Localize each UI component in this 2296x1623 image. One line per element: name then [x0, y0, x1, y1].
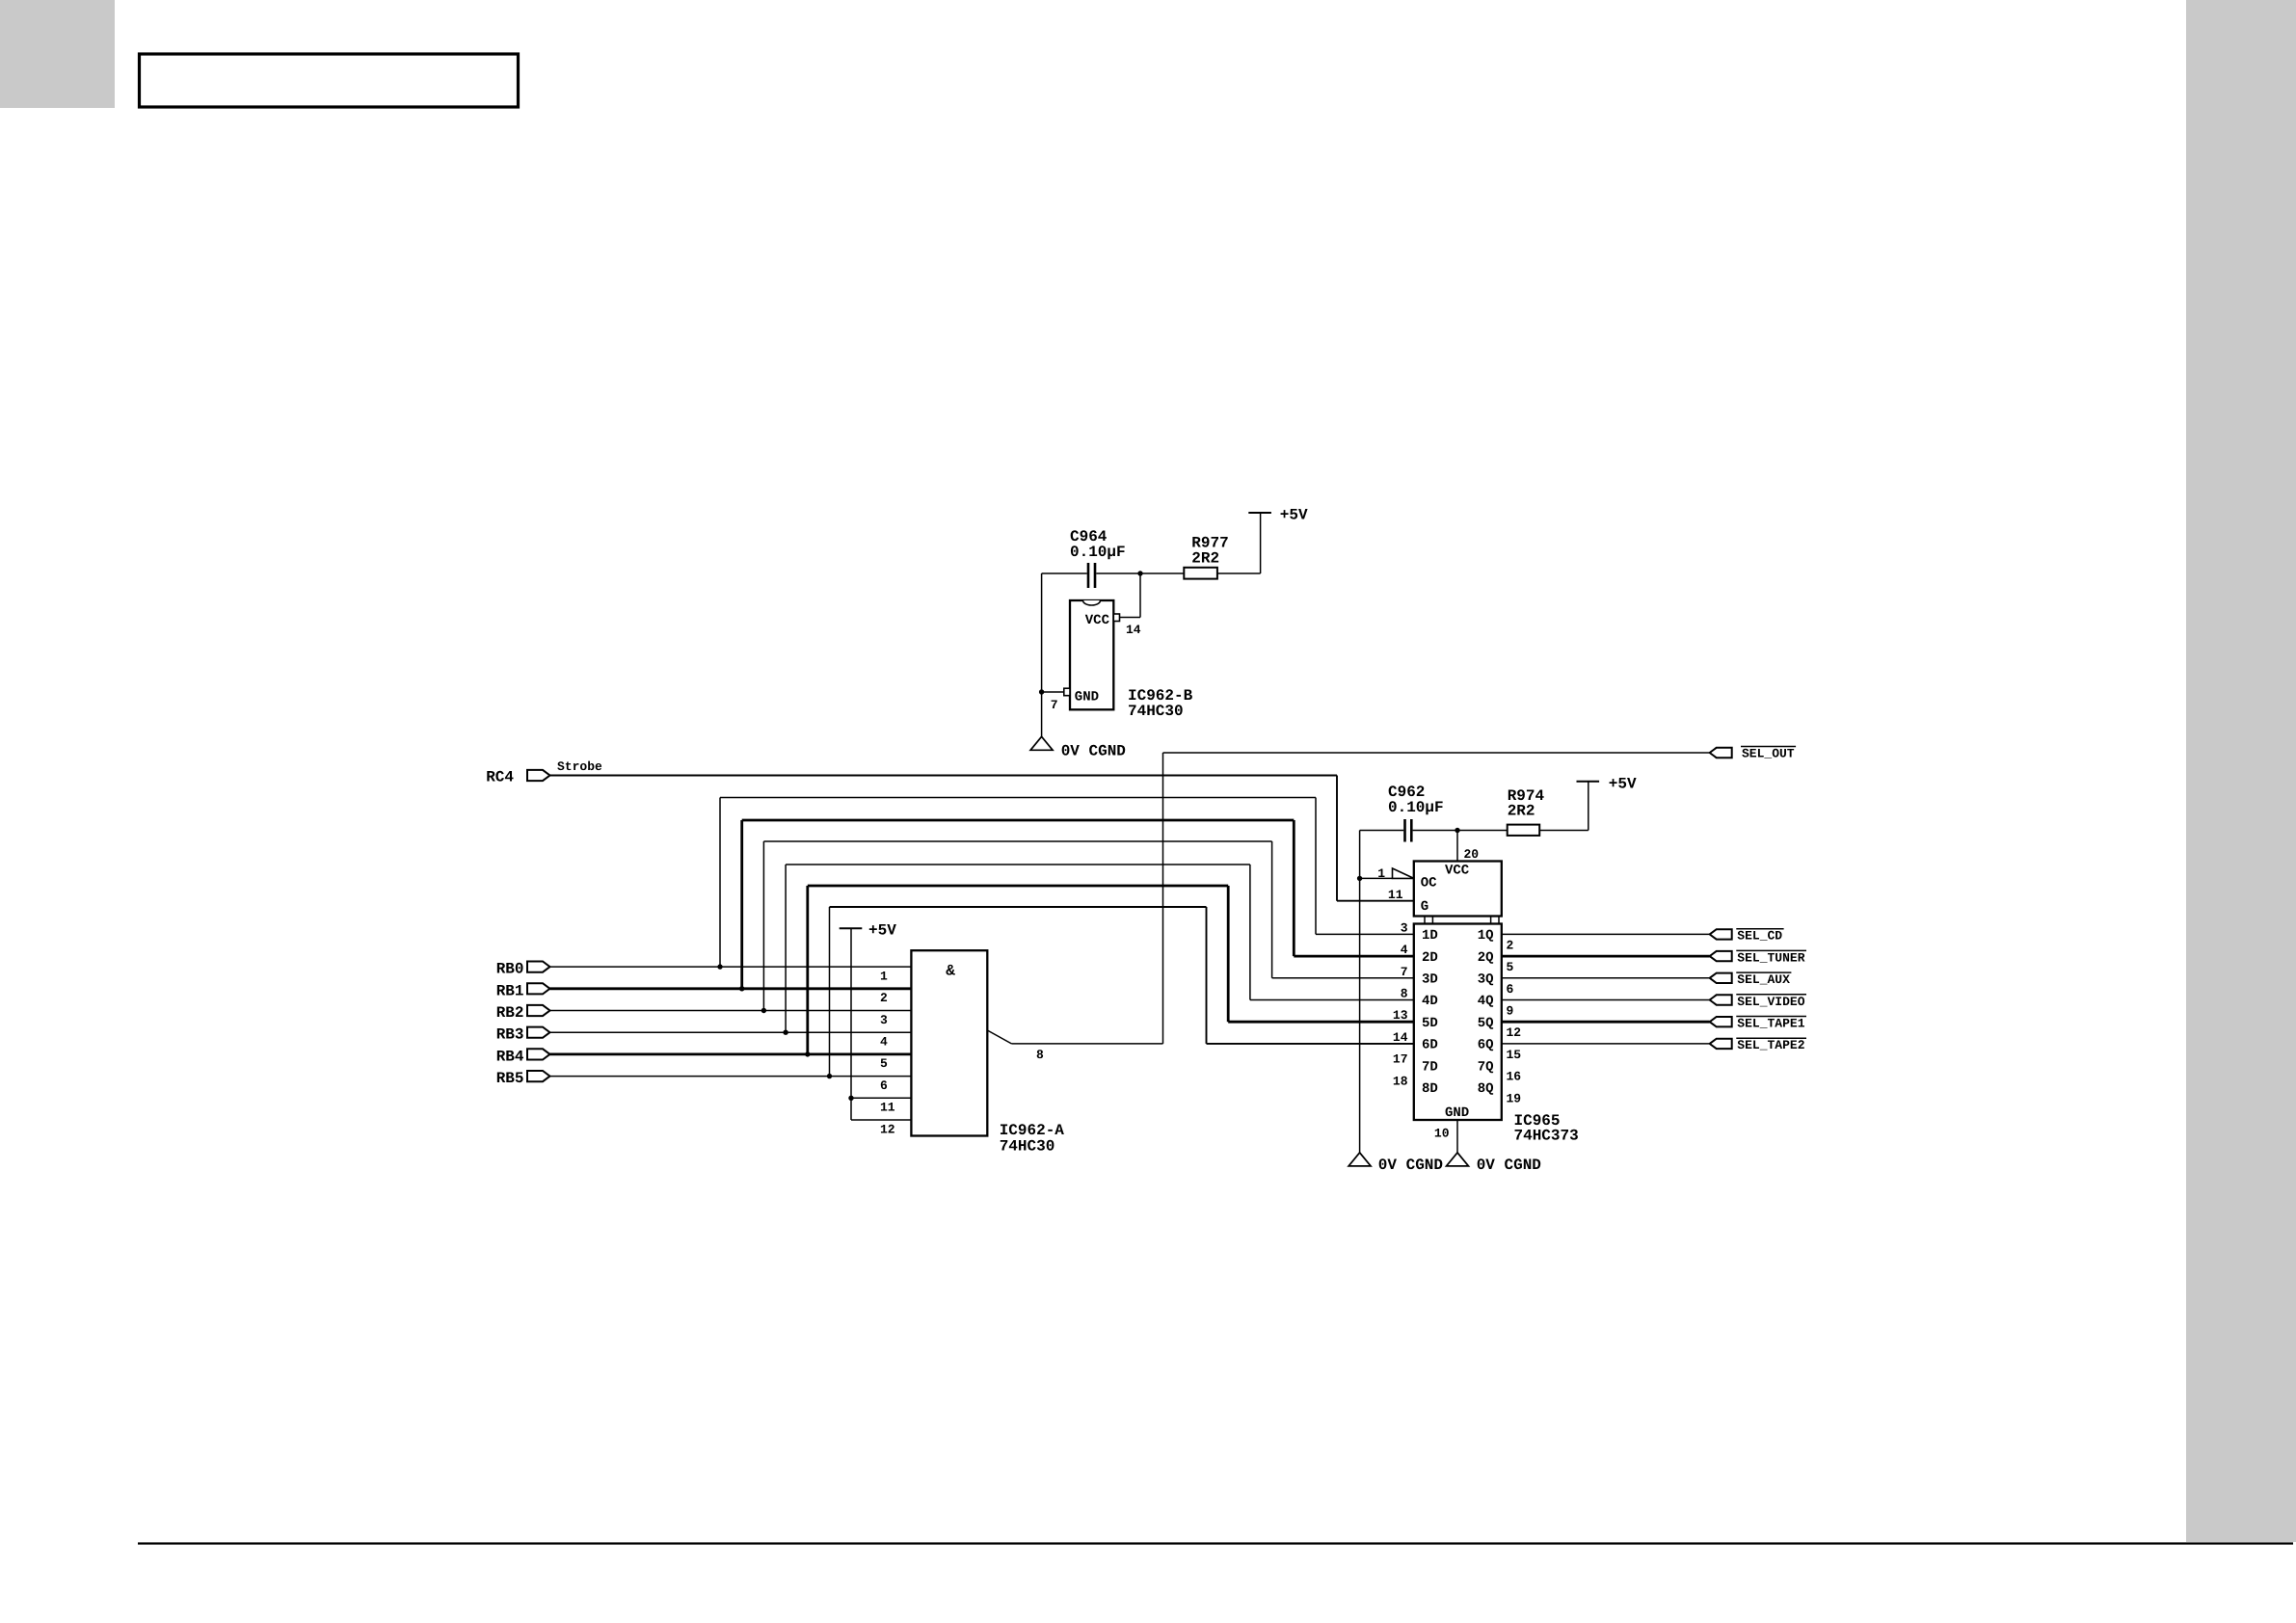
- svg-text:6: 6: [1507, 982, 1514, 997]
- svg-text:0V CGND: 0V CGND: [1061, 743, 1126, 760]
- port SEL_VIDEO: [1710, 995, 1806, 1009]
- power +5V (gate): [840, 922, 897, 940]
- port SEL_AUX: [1710, 972, 1792, 987]
- wire RB2 bus to latch 3D: [763, 841, 1413, 1011]
- svg-text:4D: 4D: [1422, 994, 1438, 1009]
- junction RB3: [783, 1030, 788, 1035]
- svg-text:17: 17: [1393, 1052, 1408, 1067]
- svg-text:12: 12: [1507, 1025, 1522, 1040]
- svg-text:18: 18: [1393, 1074, 1408, 1088]
- wire +5V to gate pins 11/12: [851, 928, 911, 1120]
- svg-text:7: 7: [1051, 698, 1058, 712]
- wire SEL_OUT riser from gate output: [1162, 753, 1164, 1044]
- svg-text:SEL_TAPE2: SEL_TAPE2: [1737, 1038, 1804, 1052]
- wire gate output: [1011, 1043, 1162, 1045]
- wire C964 left to ground leg: [1042, 572, 1087, 574]
- latch pin 18 (8D) label: [1393, 1074, 1438, 1097]
- latch pin 14 (6D) label: [1393, 1030, 1438, 1053]
- svg-text:14: 14: [1393, 1030, 1408, 1045]
- gate pin 4 label: [880, 1035, 888, 1050]
- port RB1: [496, 982, 550, 999]
- svg-text:6D: 6D: [1422, 1038, 1438, 1053]
- svg-text:RB2: RB2: [496, 1004, 524, 1022]
- wire RB5 bus to latch 6D: [830, 907, 1414, 1077]
- wire C962 right to R974: [1413, 830, 1508, 832]
- wire R977 to +5V: [1217, 513, 1261, 573]
- svg-text:7D: 7D: [1422, 1059, 1438, 1075]
- ground 0V CGND (IC965): [1447, 1153, 1541, 1174]
- pin 14 label: [1126, 623, 1141, 637]
- pin 7 label: [1051, 698, 1058, 712]
- wire R974 to +5V: [1539, 782, 1589, 831]
- title box (empty): [140, 54, 519, 107]
- port SEL_OUT: [1710, 747, 1796, 761]
- resistor R974: [1508, 787, 1545, 836]
- svg-text:1: 1: [880, 969, 888, 983]
- svg-text:G: G: [1421, 899, 1428, 915]
- wire GND pin 7 to ground leg: [1042, 691, 1064, 693]
- latch pin 9 (4Q) label: [1478, 994, 1514, 1018]
- latch pin 8 (4D) label: [1401, 987, 1438, 1010]
- svg-text:6: 6: [880, 1078, 888, 1093]
- port RB4: [496, 1048, 550, 1065]
- svg-text:0V CGND: 0V CGND: [1477, 1157, 1541, 1174]
- pin 11 label (G): [1388, 888, 1403, 902]
- latch neck left: [1425, 917, 1432, 924]
- latch pin 15 (6Q) label: [1478, 1038, 1522, 1062]
- ground 0V CGND (OC leg): [1348, 1153, 1443, 1174]
- svg-text:4Q: 4Q: [1478, 994, 1494, 1009]
- port RC4: [486, 769, 549, 786]
- latch pin 12 (5Q) label: [1478, 1016, 1522, 1040]
- wire 4Q output: [1502, 999, 1710, 1001]
- latch pin 19 (8Q) label: [1478, 1081, 1522, 1105]
- pin 20 label: [1464, 847, 1480, 862]
- wire 2Q output: [1502, 955, 1710, 958]
- svg-text:3: 3: [1401, 920, 1408, 935]
- svg-text:SEL_OUT: SEL_OUT: [1742, 747, 1795, 761]
- junction RB0: [717, 964, 722, 969]
- net label Strobe: [557, 759, 602, 774]
- capacitor C964: [1070, 528, 1126, 588]
- NAND gate IC962-A 74HC30: [911, 950, 1064, 1155]
- svg-text:3Q: 3Q: [1478, 972, 1494, 988]
- wire RB5 to gate pin: [550, 1076, 912, 1078]
- wire OC ground leg: [1359, 831, 1361, 1153]
- svg-text:2: 2: [1507, 938, 1514, 952]
- IC962-B body 74HC30: [1064, 600, 1193, 720]
- svg-text:4: 4: [880, 1035, 888, 1050]
- latch pin 17 (7D) label: [1393, 1052, 1438, 1076]
- junction C964/R977/VCC14: [1137, 571, 1142, 575]
- pin 10 label: [1434, 1127, 1450, 1141]
- power +5V (latch): [1577, 776, 1638, 793]
- svg-text:74HC373: 74HC373: [1514, 1127, 1579, 1144]
- gate output pin 8 wedge: [987, 1030, 1011, 1044]
- svg-text:2D: 2D: [1422, 950, 1438, 966]
- port SEL_TUNER: [1710, 950, 1806, 965]
- latch pin 3 (1D) label: [1401, 920, 1438, 944]
- latch IC965 74HC373 control box: [1414, 862, 1502, 917]
- svg-text:2Q: 2Q: [1478, 950, 1494, 966]
- pin 1 label (OC): [1377, 866, 1385, 881]
- svg-text:2R2: 2R2: [1191, 550, 1219, 568]
- svg-text:7: 7: [1401, 965, 1408, 979]
- wire SEL_OUT horizontal: [1163, 752, 1710, 754]
- wire ground leg down: [1041, 573, 1043, 736]
- port RB3: [496, 1026, 550, 1044]
- svg-text:SEL_TAPE1: SEL_TAPE1: [1737, 1017, 1804, 1031]
- gate pin 11 label: [880, 1101, 895, 1115]
- gate pin 6 label: [880, 1078, 888, 1093]
- svg-text:SEL_VIDEO: SEL_VIDEO: [1737, 995, 1804, 1009]
- svg-text:GND: GND: [1075, 690, 1099, 705]
- svg-text:15: 15: [1507, 1048, 1522, 1062]
- gate pin 2 label: [880, 991, 888, 1005]
- svg-text:SEL_TUNER: SEL_TUNER: [1737, 950, 1804, 965]
- junction RB2: [761, 1008, 766, 1013]
- wire VCC pin 14 riser: [1120, 573, 1141, 618]
- wire Strobe to G: [1337, 776, 1414, 901]
- svg-text:8Q: 8Q: [1478, 1081, 1494, 1097]
- svg-text:RB3: RB3: [496, 1026, 524, 1044]
- wire RB3 bus to latch 4D: [786, 865, 1414, 1032]
- latch pin 4 (2D) label: [1401, 943, 1438, 966]
- svg-text:Strobe: Strobe: [557, 759, 602, 774]
- svg-text:6Q: 6Q: [1478, 1038, 1494, 1053]
- svg-text:GND: GND: [1445, 1105, 1469, 1121]
- svg-text:SEL_AUX: SEL_AUX: [1737, 972, 1790, 987]
- svg-text:20: 20: [1464, 847, 1480, 862]
- footer rule: [138, 1542, 2293, 1544]
- svg-text:+5V: +5V: [1609, 776, 1637, 793]
- wire 5Q output: [1502, 1021, 1710, 1024]
- svg-text:RB0: RB0: [496, 961, 524, 978]
- capacitor C962: [1388, 784, 1444, 842]
- gate pin 3 label: [880, 1013, 888, 1027]
- latch pin 13 (5D) label: [1393, 1008, 1438, 1031]
- svg-text:5: 5: [1507, 960, 1514, 974]
- resistor R977: [1184, 535, 1228, 579]
- svg-text:2R2: 2R2: [1508, 803, 1535, 820]
- svg-text:RB4: RB4: [496, 1048, 524, 1065]
- latch GND pin wire: [1456, 1120, 1458, 1153]
- wire RB4 bus to latch 5D: [808, 886, 1414, 1054]
- svg-text:8D: 8D: [1422, 1081, 1438, 1097]
- gate pin 8 label: [1036, 1048, 1044, 1062]
- svg-text:8: 8: [1401, 987, 1408, 1001]
- wire RB2 to gate pin: [550, 1010, 912, 1012]
- svg-text:1: 1: [1377, 866, 1385, 881]
- gate pin 1 label: [880, 969, 888, 983]
- wire RB1 bus to latch 2D: [742, 820, 1414, 989]
- svg-text:3: 3: [880, 1013, 888, 1027]
- port SEL_TAPE1: [1710, 1017, 1806, 1031]
- svg-text:5: 5: [880, 1056, 888, 1071]
- svg-text:74HC30: 74HC30: [1128, 703, 1184, 720]
- port RB0: [496, 961, 550, 978]
- wire RB4 to gate pin: [550, 1053, 912, 1056]
- gate pin 12 label: [880, 1122, 895, 1136]
- svg-text:1D: 1D: [1422, 928, 1438, 944]
- svg-text:RB1: RB1: [496, 982, 524, 999]
- page margin shading right: [2186, 0, 2296, 1542]
- svg-text:RB5: RB5: [496, 1070, 524, 1087]
- svg-text:2: 2: [880, 991, 888, 1005]
- svg-text:11: 11: [1388, 888, 1403, 902]
- wire C964 right to R977: [1096, 572, 1184, 574]
- svg-text:10: 10: [1434, 1127, 1450, 1141]
- port SEL_CD: [1710, 929, 1784, 944]
- gate pin 5 label: [880, 1056, 888, 1071]
- svg-text:1Q: 1Q: [1478, 928, 1494, 944]
- svg-text:19: 19: [1507, 1091, 1522, 1105]
- latch pin 7 (3D) label: [1401, 965, 1438, 988]
- wire RB0 bus to latch 1D: [720, 798, 1414, 968]
- wire OC: [1360, 877, 1393, 879]
- wire C962 left to ground leg: [1360, 830, 1404, 832]
- junction RB4: [805, 1051, 810, 1056]
- svg-text:+5V: +5V: [1280, 507, 1308, 524]
- port RB5: [496, 1070, 550, 1087]
- latch pin 6 (3Q) label: [1478, 972, 1514, 997]
- junction RB5: [827, 1074, 832, 1078]
- svg-text:5D: 5D: [1422, 1016, 1438, 1031]
- wire 1Q output: [1502, 933, 1710, 935]
- svg-text:12: 12: [880, 1122, 895, 1136]
- svg-text:0V CGND: 0V CGND: [1378, 1157, 1443, 1174]
- svg-text:16: 16: [1507, 1070, 1522, 1084]
- junction OC: [1357, 876, 1362, 881]
- wire RB3 to gate pin: [550, 1031, 912, 1033]
- latch pin 5 (2Q) label: [1478, 950, 1514, 974]
- svg-text:OC: OC: [1421, 875, 1437, 891]
- svg-text:VCC: VCC: [1445, 863, 1470, 878]
- junction ground leg pin7: [1039, 689, 1044, 694]
- svg-text:7Q: 7Q: [1478, 1059, 1494, 1075]
- page corner shading top-left: [0, 0, 115, 108]
- svg-text:3D: 3D: [1422, 972, 1438, 988]
- latch neck right: [1491, 917, 1499, 924]
- svg-text:+5V: +5V: [868, 922, 896, 940]
- svg-text:0.10µF: 0.10µF: [1388, 799, 1444, 816]
- latch pin 2 (1Q) label: [1478, 928, 1514, 952]
- svg-text:0.10µF: 0.10µF: [1070, 544, 1126, 561]
- wire VCC pin 20: [1456, 831, 1458, 862]
- OC polarity triangle: [1393, 868, 1414, 878]
- svg-text:SEL_CD: SEL_CD: [1737, 929, 1782, 944]
- svg-text:5Q: 5Q: [1478, 1016, 1494, 1031]
- svg-text:13: 13: [1393, 1008, 1408, 1023]
- svg-text:9: 9: [1507, 1004, 1514, 1019]
- svg-text:IC962-A: IC962-A: [1000, 1122, 1065, 1139]
- port SEL_TAPE2: [1710, 1038, 1806, 1052]
- svg-text:11: 11: [880, 1101, 895, 1115]
- wire RB0 to gate pin: [550, 966, 912, 968]
- svg-text:&: &: [946, 963, 955, 980]
- port RB2: [496, 1004, 550, 1022]
- svg-text:8: 8: [1036, 1048, 1044, 1062]
- junction pin 11: [848, 1096, 853, 1101]
- wire Strobe horizontal: [550, 775, 1338, 777]
- junction RB1: [739, 986, 744, 991]
- ground 0V CGND (IC962-B): [1030, 736, 1126, 759]
- svg-text:RC4: RC4: [486, 769, 514, 786]
- junction C962/R974/VCC20: [1455, 828, 1459, 833]
- latch IC965 main body: [1414, 924, 1579, 1145]
- wire 6Q output: [1502, 1043, 1710, 1045]
- svg-text:14: 14: [1126, 623, 1141, 637]
- svg-text:74HC30: 74HC30: [1000, 1138, 1055, 1156]
- power +5V (top): [1248, 507, 1308, 524]
- svg-text:VCC: VCC: [1085, 613, 1110, 628]
- wire 3Q output: [1502, 977, 1710, 979]
- latch pin 16 (7Q) label: [1478, 1059, 1522, 1083]
- wire RB1 to gate pin: [550, 987, 912, 990]
- svg-text:4: 4: [1401, 943, 1408, 957]
